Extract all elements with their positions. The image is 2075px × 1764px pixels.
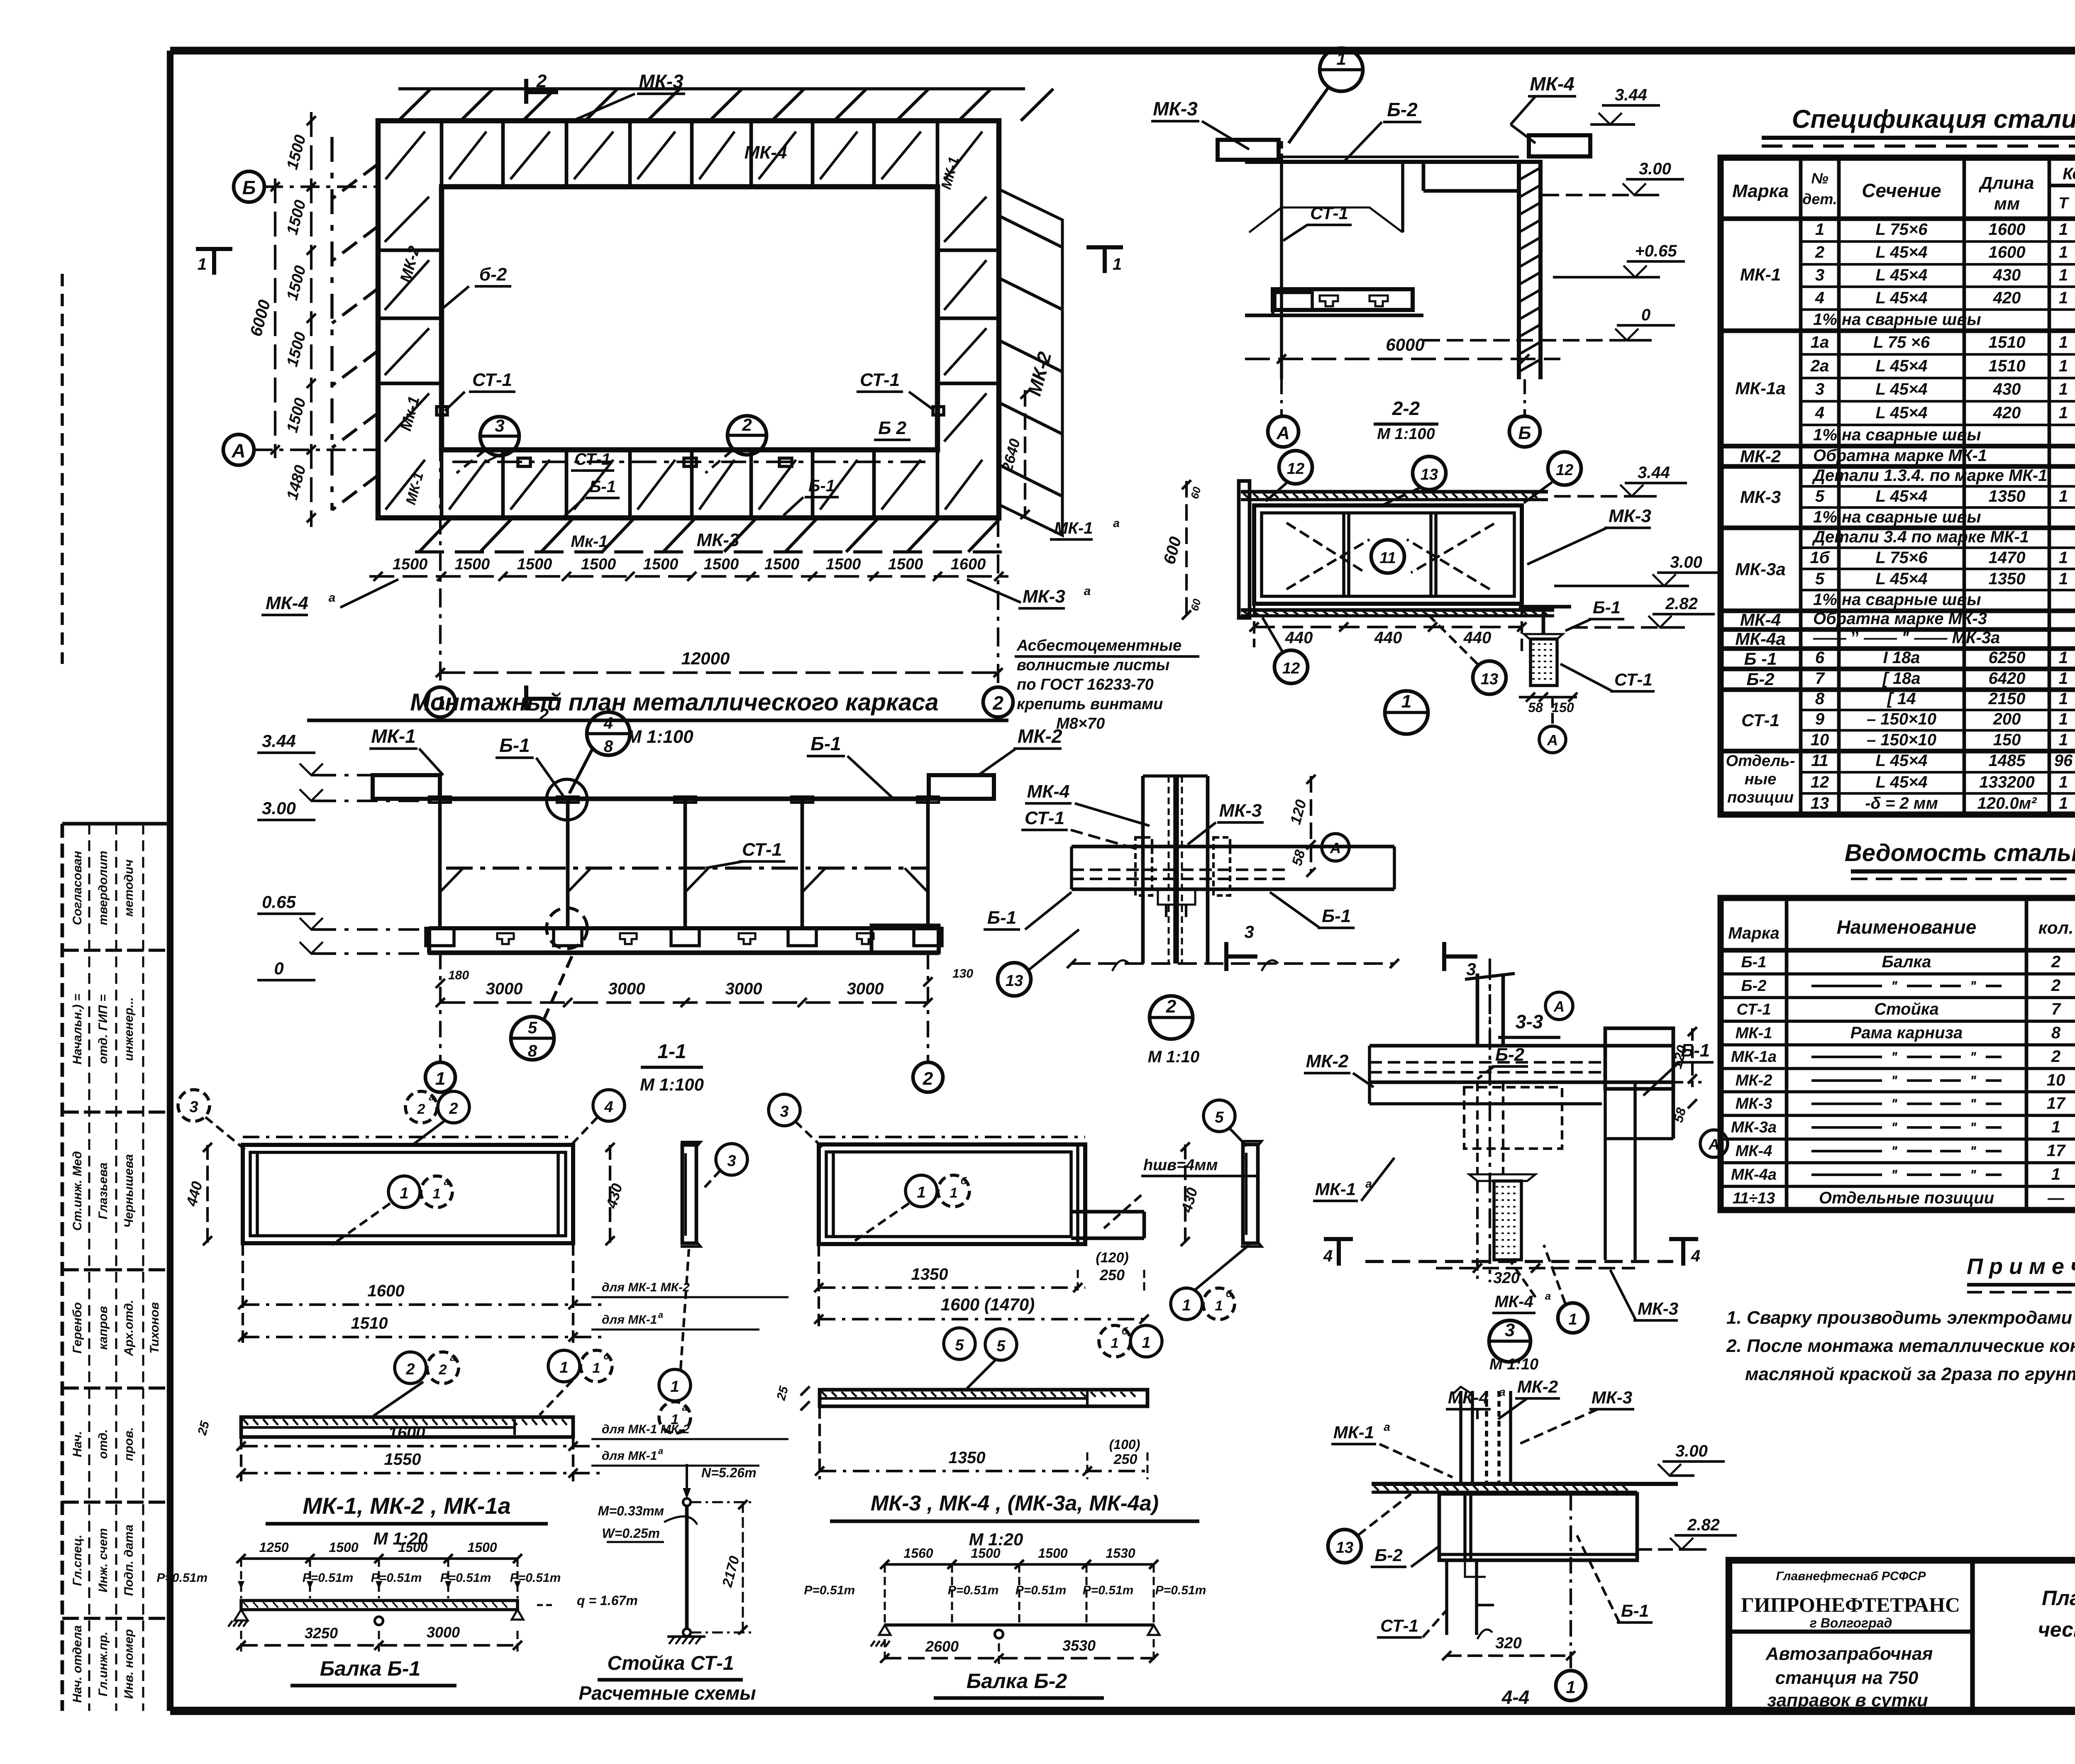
elevation level marks [257, 731, 440, 980]
X diagonals to circle 11 [1286, 539, 1369, 589]
svg-text:Спецификация стали на 1 эле: Спецификация стали на 1 элемент [1792, 105, 2075, 134]
svg-text:МК-1: МК-1 [1740, 265, 1781, 284]
svg-text:МК-2: МК-2 [1517, 1377, 1558, 1396]
svg-text:СТ-1: СТ-1 [1614, 670, 1653, 689]
vedomost rows [1721, 953, 2075, 1207]
svg-text:МК-2: МК-2 [1306, 1051, 1349, 1071]
svg-text:Стойка: Стойка [1874, 1000, 1939, 1018]
left closing plate [1239, 481, 1250, 618]
svg-text:дет.: дет. [1802, 190, 1837, 207]
svg-text:1250: 1250 [259, 1540, 288, 1555]
svg-text:1: 1 [2059, 690, 2068, 708]
section 2-2 labels/levels [1151, 48, 1685, 340]
svg-text:2: 2 [992, 692, 1003, 714]
svg-text:Р=0.51т: Р=0.51т [510, 1571, 561, 1585]
svg-text:Балка Б-1: Балка Б-1 [320, 1657, 420, 1680]
section 2-2: roof beam [1218, 135, 1590, 379]
svg-text:СТ-1: СТ-1 [1741, 710, 1780, 730]
svg-text:2.82: 2.82 [1687, 1516, 1720, 1534]
svg-text:13: 13 [1481, 671, 1498, 688]
svg-text:Р=0.51т: Р=0.51т [1155, 1583, 1206, 1597]
svg-text:1: 1 [2059, 357, 2068, 375]
node marker circles on elevation [547, 779, 587, 820]
node 2 detail M1:10 [984, 775, 1477, 1066]
svg-text:600: 600 [1160, 535, 1185, 566]
column CT-1 calc scheme [552, 1464, 780, 1710]
title block [1729, 1560, 2075, 1711]
svg-text:I 18а: I 18а [1883, 649, 1920, 667]
svg-text:Б-2: Б-2 [1746, 669, 1774, 689]
svg-text:а: а [682, 1402, 687, 1413]
svg-text:13: 13 [1811, 794, 1829, 812]
mid tie CT-1 [446, 866, 928, 870]
svg-text:12: 12 [1287, 460, 1304, 478]
svg-text:ʺ: ʺ [1891, 1096, 1898, 1112]
svg-text:L 45×4: L 45×4 [1876, 243, 1928, 261]
svg-text:Монтажный план металлическог: Монтажный план металлического каркаса [410, 689, 938, 716]
svg-text:1: 1 [2059, 243, 2068, 261]
specification table header text [1732, 162, 2075, 213]
frame outer [1254, 505, 1522, 604]
svg-text:1: 1 [2059, 404, 2068, 422]
svg-text:МК-4: МК-4 [1736, 1142, 1772, 1160]
svg-text:Ведомость стальных элементов: Ведомость стальных элементов [1845, 839, 2075, 866]
svg-text:Чернышева: Чернышева [122, 1154, 136, 1228]
svg-text:Б: Б [242, 177, 256, 198]
svg-text:МК-1: МК-1 [1736, 1025, 1772, 1042]
svg-text:3-3: 3-3 [1516, 1011, 1543, 1032]
svg-text:ʺ: ʺ [1891, 978, 1898, 994]
svg-text:1-1: 1-1 [657, 1041, 686, 1063]
elevation labels [369, 712, 1062, 1060]
svg-text:МК-4: МК-4 [1494, 1293, 1533, 1311]
svg-text:2150: 2150 [1988, 690, 2026, 708]
svg-text:1500: 1500 [1038, 1546, 1067, 1561]
svg-text:1: 1 [1111, 1335, 1119, 1351]
svg-text:1500: 1500 [283, 396, 309, 435]
svg-text:7: 7 [2051, 1000, 2061, 1018]
vertical right column part [1633, 1082, 1637, 1260]
svg-text:6250: 6250 [1989, 649, 2026, 667]
svg-text:6000: 6000 [1386, 335, 1424, 354]
MK-3 group title [830, 1491, 1199, 1549]
callout circle 13 [1328, 1530, 1361, 1563]
axis circle 1 [1556, 1671, 1586, 1701]
MK-4 plate right [1529, 135, 1590, 156]
svg-text:ʺ: ʺ [1970, 1073, 1977, 1089]
specification table title [1762, 105, 2075, 173]
svg-text:б: б [1226, 1288, 1233, 1300]
svg-text:2: 2 [417, 1101, 425, 1117]
svg-text:1500: 1500 [393, 556, 428, 573]
svg-text:4: 4 [603, 714, 613, 732]
svg-text:4: 4 [1815, 289, 1824, 307]
axis circle Б (2-2) [1509, 416, 1540, 447]
svg-text:5: 5 [955, 1337, 964, 1354]
svg-text:1350: 1350 [911, 1265, 948, 1283]
svg-text:Ст.инж. Мед: Ст.инж. Мед [71, 1151, 84, 1231]
CT-1 knee brace [1249, 207, 1403, 232]
svg-text:1: 1 [198, 255, 207, 273]
svg-text:МК-1, МК-2 , МК-1а: МК-1, МК-2 , МК-1а [303, 1493, 511, 1519]
svg-text:Б-1: Б-1 [987, 908, 1016, 928]
svg-text:250: 250 [1113, 1452, 1138, 1467]
svg-text:а: а [1545, 1290, 1551, 1302]
svg-text:1500: 1500 [283, 198, 309, 237]
svg-text:Подп. дата: Подп. дата [122, 1525, 136, 1596]
svg-text:Б 2: Б 2 [878, 418, 906, 438]
axis circle 2 (elevation) [913, 1062, 943, 1092]
svg-text:ʺ: ʺ [1891, 1073, 1898, 1089]
svg-text:[ 18а: [ 18а [1882, 669, 1920, 688]
svg-text:– 150×10: – 150×10 [1867, 710, 1936, 728]
svg-text:1: 1 [950, 1185, 958, 1201]
svg-text:hшв=4мм: hшв=4мм [1143, 1156, 1218, 1174]
svg-text:Длина: Длина [1979, 173, 2034, 193]
svg-text:1: 1 [1566, 1677, 1575, 1697]
svg-text:L 45×4: L 45×4 [1876, 751, 1928, 770]
node circle 3 [1489, 1320, 1531, 1362]
svg-text:5: 5 [1815, 487, 1825, 505]
svg-text:1600: 1600 [388, 1424, 425, 1442]
svg-text:Детали 1.3.4. по марке МК-1: Детали 1.3.4. по марке МК-1 [1812, 466, 2047, 485]
svg-text:12: 12 [1282, 660, 1300, 677]
node title circle 1 [1385, 691, 1428, 734]
svg-text:Детали 3.4 по марке МК-1: Детали 3.4 по марке МК-1 [1812, 528, 2029, 546]
svg-text:Инв. номер: Инв. номер [122, 1629, 136, 1699]
svg-text:ГИПРОНЕФТЕТРАНС: ГИПРОНЕФТЕТРАНС [1741, 1593, 1960, 1616]
elevation dimension chain 3000 x4 [425, 953, 943, 1092]
svg-text:СТ-1: СТ-1 [742, 839, 782, 860]
node title circle 2 [1150, 996, 1193, 1039]
svg-text:11: 11 [1379, 549, 1396, 567]
svg-text:L 45×4: L 45×4 [1876, 380, 1928, 398]
svg-text:Б-1: Б-1 [499, 734, 530, 756]
svg-text:капров: капров [96, 1306, 110, 1349]
svg-text:1: 1 [593, 1360, 601, 1376]
svg-text:Б-1: Б-1 [1681, 1040, 1710, 1061]
callout circle 4/8 [587, 712, 630, 755]
svg-text:320: 320 [1495, 1635, 1521, 1652]
svg-text:а: а [450, 1352, 455, 1364]
I-beam B-1 and CT-1 column under right end [1519, 605, 1571, 609]
svg-text:133200: 133200 [1979, 773, 2034, 791]
svg-text:L 45×4: L 45×4 [1876, 773, 1928, 791]
svg-text:13: 13 [1421, 466, 1438, 483]
svg-text:2: 2 [439, 1362, 447, 1378]
svg-text:Марка: Марка [1728, 924, 1780, 942]
channel end view bar [682, 1145, 696, 1243]
svg-text:Б-1: Б-1 [808, 477, 835, 495]
svg-text:1: 1 [2059, 570, 2068, 588]
notes (Примечания) [1726, 1254, 2075, 1384]
svg-text:-δ = 2 мм: -δ = 2 мм [1865, 794, 1938, 812]
svg-text:+0.65: +0.65 [1635, 242, 1677, 260]
callout circles 12 13 12 11 12 13 [1279, 451, 1312, 484]
section marks 4 [1324, 1237, 1353, 1241]
svg-text:430: 430 [1993, 266, 2021, 284]
svg-text:1: 1 [917, 1184, 925, 1201]
svg-text:Глазьева: Глазьева [96, 1163, 110, 1220]
svg-text:МК-3: МК-3 [1219, 800, 1262, 821]
svg-text:МК-3: МК-3 [639, 71, 684, 92]
top dashed extension [243, 1136, 573, 1138]
svg-text:а: а [1084, 584, 1091, 598]
svg-text:Отдельные позиции: Отдельные позиции [1819, 1189, 1994, 1207]
svg-text:Б-2: Б-2 [1741, 977, 1767, 995]
svg-text:1% на сварные швы: 1% на сварные швы [1813, 590, 1981, 609]
svg-text:1: 1 [1336, 49, 1346, 68]
svg-text:2-2: 2-2 [1392, 398, 1420, 419]
svg-text:120.0м²: 120.0м² [1977, 794, 2037, 812]
specification table rows [1721, 220, 2075, 815]
svg-text:1: 1 [1142, 1334, 1150, 1352]
svg-text:ʺ: ʺ [1970, 1167, 1977, 1183]
svg-text:1: 1 [2059, 289, 2068, 307]
svg-text:М 1:10: М 1:10 [1148, 1048, 1200, 1066]
svg-text:120: 120 [1286, 798, 1309, 826]
svg-text:25: 25 [774, 1384, 791, 1402]
svg-text:Обратна марке МК-3: Обратна марке МК-3 [1813, 610, 1987, 628]
svg-text:а: а [444, 1176, 449, 1188]
svg-text:1: 1 [2051, 1118, 2060, 1136]
svg-text:а: а [658, 1310, 663, 1320]
svg-text:МК-2: МК-2 [1736, 1072, 1772, 1089]
upper column bundle [1459, 1391, 1462, 1484]
bottom rail double line [1241, 608, 1554, 612]
svg-text:2. После монтажа металлическ: 2. После монтажа металлические конструкц… [1726, 1336, 2075, 1356]
svg-text:3: 3 [1244, 922, 1254, 942]
svg-text:МК-4: МК-4 [1027, 781, 1070, 802]
svg-text:МК-4: МК-4 [745, 142, 787, 163]
svg-text:L 75×6: L 75×6 [1876, 220, 1928, 239]
svg-text:L 45×4: L 45×4 [1876, 266, 1928, 284]
svg-text:А: А [1276, 423, 1290, 443]
svg-text:г Волгоград: г Волгоград [1810, 1615, 1892, 1630]
plan section marks 1-1 [196, 247, 1123, 275]
svg-text:3000: 3000 [847, 980, 884, 998]
callout circles [178, 1090, 210, 1121]
axis circle A (2-2) [1268, 416, 1299, 447]
MK-1/MK-2 frame detail [178, 1090, 788, 1433]
svg-text:1: 1 [2059, 773, 2068, 791]
svg-text:№: № [1811, 170, 1828, 187]
svg-text:1500: 1500 [888, 556, 923, 573]
svg-text:мм: мм [1994, 194, 2020, 213]
beam B-2 load scheme [804, 1546, 1206, 1698]
svg-text:3.44: 3.44 [262, 731, 296, 751]
svg-text:2170: 2170 [719, 1554, 743, 1589]
svg-text:1500: 1500 [971, 1546, 1000, 1561]
MK-3 plate left [1218, 140, 1279, 160]
svg-text:1600 (1470): 1600 (1470) [941, 1295, 1035, 1314]
svg-text:Мк-1: Мк-1 [397, 395, 423, 433]
svg-text:Стойка СТ-1: Стойка СТ-1 [607, 1652, 734, 1674]
svg-text:Р=0.51т: Р=0.51т [303, 1571, 354, 1585]
svg-text:12: 12 [1556, 461, 1573, 479]
svg-text:СТ-1: СТ-1 [472, 370, 512, 390]
svg-text:МК-3 , МК-4 , (МК-3а, МК-4а): МК-3 , МК-4 , (МК-3а, МК-4а) [871, 1491, 1159, 1515]
svg-text:МК-1: МК-1 [938, 155, 962, 191]
svg-text:q = 1.67т: q = 1.67т [577, 1593, 638, 1608]
svg-text:Сечение: Сечение [1862, 180, 1941, 201]
svg-text:3: 3 [495, 416, 504, 435]
svg-text:1600: 1600 [1989, 243, 2026, 261]
svg-text:Геренбо: Геренбо [71, 1302, 84, 1354]
vedomost table grid [1721, 898, 2075, 1210]
svg-text:1: 1 [2059, 710, 2068, 728]
svg-text:а: а [658, 1446, 663, 1456]
svg-text:1510: 1510 [1989, 333, 2026, 351]
svg-text:МК-2: МК-2 [1740, 446, 1781, 466]
svg-text:МК-4а: МК-4а [1735, 629, 1786, 649]
svg-text:L 45×4: L 45×4 [1876, 487, 1928, 505]
svg-text:8: 8 [2051, 1024, 2061, 1042]
svg-text:– 150×10: – 150×10 [1867, 731, 1936, 749]
svg-text:L 45×4: L 45×4 [1876, 289, 1928, 307]
svg-text:[ 14: [ 14 [1887, 690, 1916, 708]
section mark 3 right [1442, 942, 1446, 971]
MK-1 flat bar detail [195, 1350, 788, 1481]
svg-text:3: 3 [189, 1098, 198, 1116]
svg-text:кол.: кол. [2038, 918, 2074, 937]
svg-text:Р=0.51т: Р=0.51т [948, 1583, 999, 1597]
svg-text:ʺ: ʺ [1970, 1120, 1977, 1136]
svg-text:для МК-1 МК-2: для МК-1 МК-2 [602, 1281, 690, 1294]
svg-text:440: 440 [1374, 629, 1402, 647]
svg-text:Б-2: Б-2 [1387, 99, 1418, 120]
svg-text:12000: 12000 [681, 649, 730, 668]
svg-text:1485: 1485 [1989, 751, 2026, 770]
svg-text:П р и м е ч а н и я :: П р и м е ч а н и я : [1967, 1254, 2075, 1279]
svg-text:430: 430 [1178, 1186, 1201, 1215]
right panel MK-2 [1605, 1028, 1673, 1089]
svg-text:Р=0.51т: Р=0.51т [1016, 1583, 1067, 1597]
svg-text:1: 1 [1215, 1298, 1223, 1314]
svg-text:1350: 1350 [1989, 570, 2026, 588]
beam band at 3.00 [1372, 1482, 1678, 1486]
svg-text:ʺ: ʺ [1970, 1144, 1977, 1159]
svg-text:320: 320 [1493, 1269, 1519, 1287]
svg-text:3000: 3000 [725, 980, 762, 998]
dims 58 150 [1519, 696, 1577, 698]
svg-text:150: 150 [1552, 700, 1574, 715]
axis circle 1 [425, 687, 455, 717]
svg-text:200: 200 [1993, 710, 2021, 728]
MK-3/MK-4 frame detail [769, 1094, 1262, 1359]
svg-text:Автозапрабочная: Автозапрабочная [1765, 1644, 1933, 1664]
bottom T base [1469, 1174, 1535, 1181]
axis circle 2 [983, 687, 1013, 717]
svg-text:Б-1: Б-1 [589, 478, 616, 496]
right dim 120 58 [1310, 776, 1312, 871]
svg-text:2: 2 [1166, 996, 1177, 1017]
dims 1350 (100) 250 [820, 1470, 1147, 1472]
svg-text:МК-3: МК-3 [1638, 1299, 1678, 1318]
svg-text:Р=0.51т: Р=0.51т [371, 1571, 422, 1585]
svg-text:1% на сварные швы: 1% на сварные швы [1813, 508, 1981, 526]
vertical CT-1 column (pair of channels) [1141, 776, 1145, 964]
svg-text:Марка: Марка [1732, 181, 1789, 201]
svg-text:ʺ: ʺ [1970, 1049, 1977, 1065]
svg-text:Р=0.51т: Р=0.51т [156, 1571, 207, 1585]
svg-text:МК-3: МК-3 [1153, 98, 1198, 120]
vedomost table title [1845, 839, 2075, 879]
svg-text:ʺ: ʺ [1970, 1096, 1977, 1112]
svg-text:Тихонов: Тихонов [148, 1302, 161, 1354]
svg-text:1500: 1500 [467, 1540, 497, 1555]
svg-text:60: 60 [1188, 597, 1203, 612]
plan hatch band: left overhang MK-2 sheets [332, 137, 378, 510]
axis circle A [1322, 834, 1349, 861]
svg-text:Асбестоцементные: Асбестоцементные [1016, 637, 1182, 654]
svg-text:Р=0.51т: Р=0.51т [440, 1571, 491, 1585]
svg-text:Нач. отдела: Нач. отдела [71, 1625, 84, 1703]
svg-text:Инж. счет: Инж. счет [96, 1528, 110, 1593]
svg-text:волнистые листы: волнистые листы [1017, 656, 1169, 674]
svg-text:М 1:100: М 1:100 [626, 727, 693, 747]
svg-text:1: 1 [400, 1185, 408, 1202]
svg-text:Б-1: Б-1 [1322, 906, 1351, 926]
svg-text:МК-3: МК-3 [1740, 487, 1781, 507]
svg-text:1: 1 [559, 1359, 568, 1376]
svg-text:11÷13: 11÷13 [1733, 1190, 1775, 1207]
svg-text:СТ-1: СТ-1 [1310, 203, 1348, 223]
svg-text:Р=0.51т: Р=0.51т [804, 1583, 855, 1597]
ground line [1245, 314, 1423, 317]
svg-text:с: с [603, 1351, 609, 1362]
svg-text:б: б [1122, 1326, 1128, 1337]
svg-text:6: 6 [1815, 649, 1825, 667]
svg-text:1500: 1500 [764, 556, 800, 573]
svg-text:Главнефтеснаб РСФСР: Главнефтеснаб РСФСР [1776, 1569, 1926, 1583]
svg-text:430: 430 [1993, 380, 2021, 398]
svg-text:L 45×4: L 45×4 [1876, 404, 1928, 422]
svg-text:МК-3а: МК-3а [1735, 559, 1786, 579]
beam B-1 load scheme [156, 1540, 637, 1686]
svg-text:2а: 2а [1810, 357, 1829, 375]
svg-text:М 1:100: М 1:100 [640, 1075, 704, 1094]
svg-text:1: 1 [1568, 1311, 1577, 1328]
svg-text:для МК-1 МК-2: для МК-1 МК-2 [602, 1422, 690, 1436]
inner vertical bars [1342, 513, 1345, 596]
svg-text:3000: 3000 [486, 980, 523, 998]
svg-text:М=0.33тм: М=0.33тм [598, 1503, 664, 1518]
svg-text:11: 11 [1811, 751, 1828, 770]
svg-text:1500: 1500 [283, 264, 309, 303]
svg-text:1% на сварные швы: 1% на сварные швы [1813, 310, 1981, 329]
430 dim right [1184, 1144, 1186, 1244]
svg-text:8: 8 [1815, 690, 1825, 708]
svg-text:5: 5 [1215, 1109, 1224, 1126]
svg-text:1: 1 [2059, 549, 2068, 567]
callout circle 13 [998, 963, 1031, 996]
svg-text:Балка Б-2: Балка Б-2 [967, 1669, 1067, 1693]
svg-text:станция на 750: станция на 750 [1775, 1668, 1919, 1688]
svg-text:420: 420 [1993, 289, 2021, 307]
svg-text:1550: 1550 [384, 1450, 421, 1469]
svg-text:2: 2 [536, 71, 547, 91]
svg-text:3: 3 [1466, 959, 1476, 979]
svg-text:МК-1: МК-1 [1315, 1179, 1356, 1199]
svg-text:МК-3: МК-3 [1609, 506, 1651, 526]
svg-text:заправок в сутки: заправок в сутки [1767, 1690, 1928, 1710]
masonry pillar hatched [1517, 162, 1521, 379]
svg-text:—: — [2047, 1189, 2065, 1207]
svg-text:МК-4: МК-4 [266, 593, 308, 613]
horizontal beams MK-4 / MK-3 [1072, 845, 1288, 849]
svg-text:L 75×6: L 75×6 [1876, 549, 1928, 567]
